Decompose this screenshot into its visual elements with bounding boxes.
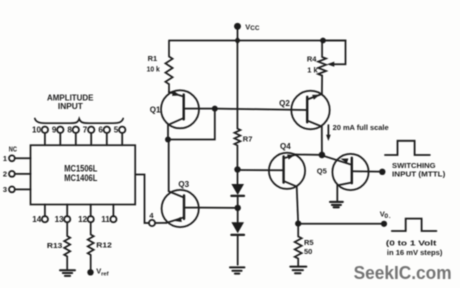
wire Q4 collector down (297, 187, 299, 224)
svg-text:R13: R13 (47, 241, 63, 250)
wire node to Q4 base (238, 169, 284, 171)
svg-text:3: 3 (3, 185, 7, 194)
label AMPLITUDE INPUT (47, 94, 94, 112)
junction D1-D2 / Q3 base node (235, 205, 241, 211)
pin 6 (104, 127, 110, 146)
svg-text:ref: ref (101, 271, 108, 277)
svg-text:INPUT: INPUT (58, 102, 83, 111)
transistor Q2 (291, 91, 329, 129)
svg-text:.: . (389, 214, 391, 220)
pin 12 (88, 205, 94, 223)
label V0 (380, 209, 391, 220)
resistor R4 (pot) (318, 41, 326, 76)
annotation 20 mA full scale (326, 123, 389, 141)
pin 13 (64, 205, 70, 223)
svg-text:11: 11 (101, 215, 110, 224)
junction Q4 collector / R5 / V0 (295, 221, 301, 227)
svg-text:0: 0 (384, 213, 388, 220)
svg-text:20 mA full scale: 20 mA full scale (333, 123, 389, 132)
R4 wiper arrow (327, 62, 334, 67)
transistor Q5 (322, 154, 379, 190)
svg-text:R1: R1 (148, 54, 158, 63)
svg-text:MC1506L: MC1506L (64, 163, 98, 173)
transistor Q3 (162, 140, 200, 228)
resistor R12 (88, 222, 94, 269)
waveform switching input pulse (385, 141, 430, 155)
junction Q2 collector / emitters (319, 152, 326, 159)
svg-text:9: 9 (52, 126, 57, 135)
svg-text:4: 4 (149, 211, 154, 220)
svg-text:Q3: Q3 (178, 180, 189, 189)
svg-text:MC1406L: MC1406L (64, 173, 98, 183)
pin 14 (42, 205, 48, 223)
junction R4 top (320, 38, 326, 44)
svg-text:(0 to 1 Volt: (0 to 1 Volt (386, 238, 437, 247)
svg-text:10: 10 (32, 126, 42, 135)
terminal switching input (379, 169, 385, 175)
svg-text:CC: CC (250, 25, 260, 32)
terminal V0 (381, 221, 387, 227)
label SWITCHING INPUT (MTTL) (392, 161, 446, 179)
pin 11 (110, 205, 116, 223)
ground R5 (290, 267, 306, 274)
transistor Q4 (269, 153, 305, 189)
svg-text:6: 6 (98, 126, 103, 135)
top pins 10..5 (32, 126, 119, 135)
wire Q1 base to Q2 base (215, 109, 307, 110)
svg-text:Q5: Q5 (317, 167, 327, 176)
node VCC label (245, 23, 260, 33)
ground R13 (60, 270, 75, 276)
svg-text:R7: R7 (243, 134, 253, 143)
svg-text:12: 12 (78, 215, 88, 224)
svg-text:1: 1 (3, 154, 7, 163)
svg-text:R12: R12 (96, 240, 112, 249)
pin 10 (42, 127, 48, 146)
wire to Q3 base (199, 207, 238, 209)
junction Q1 collector (165, 137, 171, 143)
svg-text:10 k: 10 k (147, 65, 161, 74)
svg-text:in 16 mV steps): in 16 mV steps) (387, 248, 443, 257)
svg-text:SWITCHING: SWITCHING (392, 161, 436, 170)
wire emitter rail (296, 154, 322, 156)
svg-text:50: 50 (304, 247, 312, 256)
pin 8 (73, 127, 79, 146)
label R1 10k (147, 54, 161, 74)
svg-text:2: 2 (3, 170, 7, 179)
diode D2 (231, 208, 244, 265)
diode D1 (231, 170, 244, 208)
brace amplitude input (35, 119, 123, 124)
svg-text:SeekIC.com: SeekIC.com (354, 262, 452, 283)
VCC terminal (235, 24, 240, 41)
ground Q5 (330, 202, 343, 207)
resistor R5 (295, 224, 302, 267)
pin 9 (57, 127, 63, 146)
pin 1 (3, 154, 31, 163)
junction VCC rail (234, 37, 240, 45)
svg-text:14: 14 (32, 215, 42, 224)
svg-text:R4: R4 (307, 55, 317, 64)
wire Q1 base-collector loop (168, 109, 215, 140)
svg-text:Q1: Q1 (150, 105, 161, 114)
wire Q5 collector to ground (336, 185, 338, 201)
label 0 to 1 Volt (386, 238, 443, 257)
ground D2 (230, 267, 244, 273)
label R5 50 (304, 238, 314, 256)
pin 4 terminal (135, 175, 166, 227)
label Vref (96, 267, 108, 278)
svg-text:R5: R5 (304, 238, 314, 247)
bottom pins 14,13,12,11 (32, 215, 110, 224)
pin 3 (3, 185, 31, 194)
label R4 1k (307, 55, 319, 75)
wire to V0 (298, 223, 381, 225)
svg-text:INPUT (MTTL): INPUT (MTTL) (392, 170, 446, 179)
wire VCC top rail (170, 40, 346, 42)
svg-text:1 k: 1 k (307, 66, 318, 75)
svg-text:NC: NC (9, 145, 18, 154)
wire R4 bottom to Q2 emitter (321, 76, 323, 95)
resistor R13 (64, 222, 70, 270)
waveform V0 pulse (392, 219, 437, 231)
junction R7 bottom / Q4 base node (234, 166, 240, 172)
pin 7 (88, 127, 94, 146)
svg-text:13: 13 (55, 215, 65, 224)
wire R4 wiper loop (323, 41, 346, 65)
svg-text:Q2: Q2 (279, 99, 290, 108)
junction Q1 base (212, 106, 218, 112)
svg-text:8: 8 (67, 126, 72, 135)
terminal Vref (87, 269, 93, 275)
wire Q2 collector down (321, 127, 323, 155)
pin 2 (3, 170, 31, 179)
resistor R1 (165, 41, 172, 93)
pin 5 (119, 127, 125, 146)
resistor R7 (includes feed wire from VCC rail) (234, 41, 240, 170)
svg-text:Q4: Q4 (280, 142, 291, 151)
svg-text:7: 7 (83, 126, 88, 135)
transistor Q1 (161, 90, 215, 139)
IC MC1506L/MC1406L (31, 145, 136, 204)
svg-text:5: 5 (114, 126, 119, 135)
